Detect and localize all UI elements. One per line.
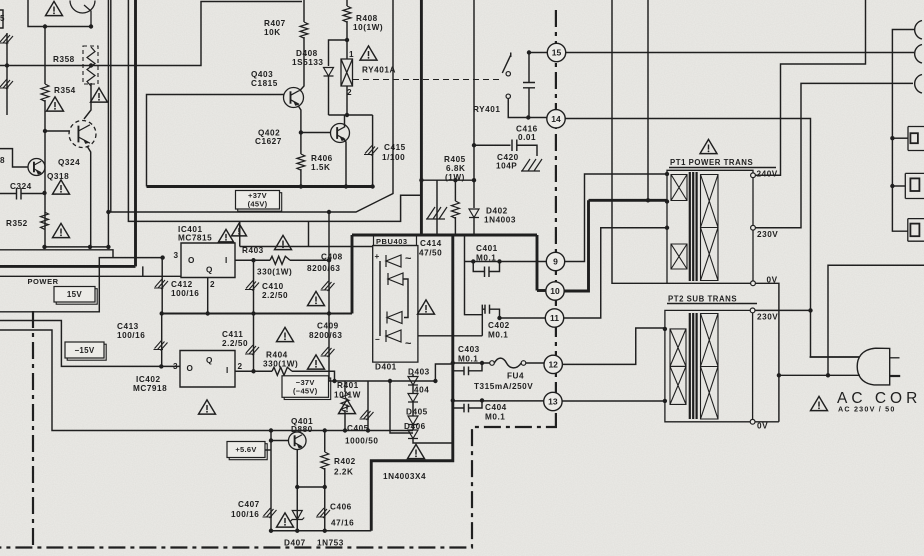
bridge D401 box	[373, 246, 418, 363]
wire IC401 pin2 down	[207, 278, 209, 314]
AC plug prong top	[890, 357, 900, 359]
svg-text:1S5133: 1S5133	[292, 58, 324, 67]
svg-text:C412: C412	[171, 280, 193, 289]
svg-text:R407: R407	[264, 19, 286, 28]
wire bottom common y246.9	[45, 246, 109, 248]
svg-text:13: 13	[548, 397, 558, 407]
svg-text:(1W): (1W)	[445, 173, 465, 182]
PT1 0V tap	[751, 281, 756, 286]
wire y115 node	[329, 114, 373, 116]
svg-text:O: O	[188, 256, 195, 265]
warning triangle below R401	[339, 399, 356, 413]
svg-text:Q324: Q324	[58, 158, 80, 167]
svg-text:Q318: Q318	[47, 172, 69, 181]
svg-text:100/16: 100/16	[171, 289, 199, 298]
wire circle15 right	[566, 52, 914, 54]
wire Q324 base	[45, 130, 70, 132]
PT1 primary winding lower	[671, 244, 687, 269]
wire circle13 left	[453, 400, 544, 402]
wire 0V down	[755, 283, 779, 422]
svg-text:M0.1: M0.1	[488, 331, 508, 340]
svg-text:I: I	[226, 366, 229, 375]
svg-text:R352: R352	[6, 219, 28, 228]
svg-text:47/16: 47/16	[331, 519, 354, 528]
warning triangle right of IC401 label	[219, 229, 234, 242]
wire GND rail y313.5	[162, 313, 352, 315]
svg-text:14: 14	[551, 114, 561, 124]
wire stub module1	[892, 137, 908, 139]
svg-text:(45V): (45V)	[248, 200, 268, 209]
svg-text:D408: D408	[296, 49, 318, 58]
svg-text:15V: 15V	[67, 290, 82, 299]
wire stub module2	[892, 185, 905, 187]
terminal 13	[544, 392, 562, 410]
label box -15V	[67, 344, 106, 360]
svg-text:C404: C404	[485, 403, 507, 412]
wire x45 through Q318 to R352	[44, 100, 46, 247]
warning triangle below Q318	[53, 180, 70, 194]
svg-text:C413: C413	[117, 322, 139, 331]
svg-text:Q: Q	[206, 266, 213, 275]
fuse FU4	[453, 362, 490, 364]
voltage selector module 1	[908, 127, 924, 151]
resistor R352	[41, 212, 49, 229]
svg-text:C414: C414	[420, 239, 442, 248]
svg-text:C1815: C1815	[251, 79, 278, 88]
wire circle11 left	[500, 317, 546, 319]
svg-text:−15V: −15V	[74, 346, 94, 355]
svg-text:~: ~	[405, 338, 412, 350]
wire x648 feeder	[647, 0, 649, 200]
warning triangle below C408	[308, 291, 325, 305]
warning triangle below C409	[308, 355, 325, 369]
svg-text:R406: R406	[311, 154, 333, 163]
PT1 230V tap	[751, 225, 756, 230]
PT1 secondary winding	[701, 175, 719, 228]
wire Q324 emitter down x90.7	[87, 146, 91, 247]
svg-text:PBU403: PBU403	[376, 237, 408, 246]
relay coil RY401A	[341, 59, 353, 86]
wire bridge ac out	[418, 305, 482, 336]
svg-text:1N4003X4: 1N4003X4	[383, 472, 426, 481]
capacitor C402	[482, 305, 499, 318]
capacitor C415	[372, 115, 374, 187]
wire thick box top y235	[352, 234, 537, 237]
transformer PT2 frame	[665, 310, 753, 421]
bridge diode 1	[386, 255, 401, 267]
svg-text:D403: D403	[408, 368, 430, 377]
wire circle11 right	[564, 228, 667, 318]
svg-text:M0.1: M0.1	[485, 413, 505, 422]
wire circle13 right	[562, 400, 665, 402]
capacitor C404	[453, 400, 482, 412]
wire reg outline big loop	[0, 330, 413, 431]
svg-text:R404: R404	[266, 351, 288, 360]
svg-text:D405: D405	[406, 408, 428, 417]
transistor Q318	[28, 159, 45, 176]
svg-text:3: 3	[174, 251, 179, 260]
warning triangle AC	[811, 396, 828, 410]
warning triangle below R354	[47, 97, 64, 111]
wire thick minus bus	[371, 235, 453, 531]
PT1 240V tap	[751, 173, 756, 178]
svg-text:C403: C403	[458, 345, 480, 354]
AC plug body	[857, 348, 890, 385]
wire PT2 230V right	[755, 309, 810, 311]
wire x28 to x45	[28, 0, 91, 27]
IC402 U-box	[180, 351, 235, 388]
chassis boundary corner to bottom	[0, 420, 556, 548]
bridge diode 3	[387, 312, 402, 324]
wire Q402 collector	[344, 115, 346, 127]
wire circle14 right	[565, 119, 859, 358]
wire Q401 base	[271, 440, 289, 442]
warning triangle top-left	[46, 1, 63, 15]
PT2 230V tap	[750, 308, 755, 313]
capacitor C401	[473, 262, 499, 278]
svg-text:12: 12	[548, 360, 558, 370]
svg-text:8: 8	[0, 156, 5, 165]
svg-text:+: +	[375, 252, 380, 261]
svg-text:10K: 10K	[264, 28, 281, 37]
svg-text:FU4: FU4	[507, 372, 524, 381]
transistor Q403	[284, 88, 304, 108]
svg-text:D406: D406	[404, 422, 426, 431]
wire bus x128.4 rail B	[128, 0, 421, 221]
svg-text:O: O	[187, 364, 194, 373]
capacitor C411	[253, 314, 255, 372]
wire thick to PT1 y200.3	[589, 199, 668, 202]
svg-text:M0.1: M0.1	[458, 355, 478, 364]
wire Q403 emitter to Q402 base	[298, 106, 331, 133]
chassis boundary left	[32, 311, 34, 548]
PT1 core bars	[690, 172, 697, 281]
wire thick bus x421.4	[420, 0, 423, 235]
dashed relay control link	[353, 79, 500, 81]
capacitor C409	[328, 314, 330, 382]
wire arc1 to selector bus	[892, 30, 915, 232]
wire rail A +37V y212	[108, 0, 393, 212]
diode D405	[408, 416, 418, 425]
resistor R406	[300, 133, 302, 155]
terminal 15	[547, 43, 565, 61]
svg-text:C402: C402	[488, 321, 510, 330]
wire C401 box left	[465, 235, 483, 315]
svg-text:+5.6V: +5.6V	[235, 445, 256, 454]
wire x474 long vertical	[473, 0, 475, 180]
PT1 terminal dots left	[665, 172, 669, 176]
capacitor C410	[253, 260, 255, 313]
label box -37V	[284, 378, 331, 400]
svg-text:R408: R408	[356, 14, 378, 23]
warning triangle left of C409	[277, 327, 294, 341]
chassis boundary vertical	[555, 10, 557, 420]
svg-text:2.2/50: 2.2/50	[262, 291, 288, 300]
svg-text:100/16: 100/16	[117, 331, 145, 340]
resistor R402	[324, 431, 326, 453]
svg-text:15: 15	[552, 48, 562, 58]
PT2 primary winding	[670, 329, 686, 367]
PT2 secondary winding	[701, 314, 719, 367]
wire -37V rail y381	[329, 380, 435, 382]
resistor R401	[344, 381, 346, 392]
wire circle9 right	[565, 174, 667, 262]
terminal 11	[545, 309, 563, 327]
wire thick rail y266.4 to left edge	[0, 265, 136, 268]
svg-text:10: 10	[550, 286, 560, 296]
svg-text:230V: 230V	[757, 230, 778, 239]
wire main rail y65.5	[0, 2, 302, 66]
svg-text:100/16: 100/16	[231, 510, 259, 519]
transformer PT1 frame	[667, 170, 753, 283]
svg-text:PT1 POWER TRANS: PT1 POWER TRANS	[670, 158, 753, 167]
zener Z-b on left stub	[0, 79, 13, 89]
svg-text:1N753: 1N753	[317, 539, 344, 548]
svg-text:0.01: 0.01	[518, 133, 536, 142]
svg-text:R354: R354	[54, 86, 76, 95]
wire thick rail y186.5	[147, 185, 374, 188]
resistor R404	[272, 367, 292, 375]
warning triangle below R352	[53, 223, 70, 237]
diode D406	[408, 430, 418, 439]
wire x437 leg	[436, 180, 438, 235]
transistor Q324	[69, 121, 96, 148]
svg-text:10(1W: 10(1W	[334, 391, 361, 400]
wire left stub x7	[6, 33, 8, 115]
capacitor C416	[523, 53, 535, 118]
wire Q403 base	[147, 95, 284, 187]
wire upper 15V feed	[0, 250, 113, 258]
capacitor C403	[453, 363, 482, 375]
wire 230V up and over	[755, 83, 913, 227]
svg-text:404: 404	[414, 386, 429, 395]
svg-text:104P: 104P	[496, 162, 517, 171]
warning triangle 1N4003	[408, 444, 425, 458]
zener Z-a on left stub	[0, 34, 13, 44]
wire y276 to IC401 bottom	[0, 266, 181, 276]
wire circle15 left	[529, 52, 547, 54]
wire PT2 0V right	[755, 421, 779, 423]
svg-text:230V: 230V	[757, 313, 778, 322]
wire thick box right x537	[536, 235, 539, 291]
svg-text:T315mA/250V: T315mA/250V	[474, 382, 533, 391]
transistor Q402	[331, 124, 350, 143]
svg-text:MC7918: MC7918	[133, 384, 167, 393]
wire Q402 emitter	[343, 138, 347, 187]
wire circle10 thick right	[564, 200, 588, 291]
svg-text:C415: C415	[384, 143, 406, 152]
svg-text:9: 9	[553, 257, 558, 267]
wire x91 R358 to Q324	[84, 83, 91, 119]
warning triangle left edge of reg box	[232, 223, 247, 236]
capacitor C413	[161, 314, 163, 367]
label box 15V	[56, 289, 97, 305]
svg-text:Q: Q	[206, 356, 213, 365]
resistor R358 dashed select box	[83, 46, 98, 84]
bridge diode 2	[388, 273, 403, 285]
wire Q401 emitter	[296, 450, 298, 531]
capacitor C408	[328, 212, 330, 314]
warning triangle right of bridge	[418, 300, 435, 314]
warning triangle above R403	[275, 235, 292, 249]
resistor R408	[346, 0, 348, 6]
svg-text:D402: D402	[486, 207, 508, 216]
capacitor C407	[263, 508, 277, 518]
connector arc 3	[915, 75, 922, 94]
wire circle10 thick left	[537, 289, 546, 292]
wire Q318 base from left	[0, 149, 28, 167]
wire relay coil bottom	[346, 86, 348, 115]
voltage selector module 2	[905, 173, 924, 198]
terminal 14	[547, 110, 565, 128]
wire bus x110.8	[110, 0, 112, 212]
wire circle12 right	[562, 328, 665, 364]
resistor R354	[44, 27, 46, 85]
svg-text:0V: 0V	[757, 422, 768, 431]
warning triangle left of D407	[277, 513, 294, 527]
warning triangle above PT1	[700, 139, 717, 153]
chassis ground for C420	[521, 159, 542, 171]
bridge diode 4	[386, 330, 401, 342]
svg-text:C406: C406	[330, 503, 352, 512]
wire PT1 bottom to x612	[612, 0, 667, 283]
wire thick bus x135.5	[134, 0, 137, 266]
svg-text:10(1W): 10(1W)	[353, 23, 383, 32]
svg-text:C407: C407	[238, 500, 260, 509]
svg-text:(−45V): (−45V)	[293, 387, 318, 396]
capacitor C420	[474, 140, 537, 157]
wire thick box left x352	[351, 235, 354, 314]
svg-text:−: −	[375, 335, 380, 344]
resistor R407	[303, 0, 305, 22]
warning triangle below IC402	[199, 400, 216, 414]
connector arc 2	[915, 45, 922, 64]
IC401 U-box	[181, 243, 235, 278]
svg-text:~: ~	[405, 253, 412, 265]
svg-text:C408: C408	[321, 253, 343, 262]
bridge inner wires	[380, 261, 408, 336]
svg-text:C405: C405	[347, 424, 369, 433]
svg-text:C410: C410	[262, 282, 284, 291]
svg-text:I: I	[225, 256, 228, 265]
wire AC plug top	[810, 356, 860, 358]
terminal 9	[546, 252, 564, 270]
svg-text:C411: C411	[222, 330, 243, 339]
transistor Q401	[288, 432, 306, 450]
wire IC401 out to R403	[235, 259, 270, 261]
svg-text:5: 5	[0, 14, 5, 23]
wire circle9 left	[465, 261, 547, 263]
label box +5.6V	[229, 444, 267, 460]
wire diode-string left leg	[390, 381, 413, 433]
svg-text:R401: R401	[337, 381, 359, 390]
reg box edge branch x239.75	[240, 221, 373, 246]
wire -15V feed	[0, 321, 180, 367]
svg-text:AC 230V / 50: AC 230V / 50	[838, 405, 896, 414]
svg-text:2.2K: 2.2K	[334, 468, 354, 477]
svg-text:C401: C401	[476, 244, 498, 253]
wire +5.6V stub	[265, 449, 271, 451]
connector arc 1	[915, 21, 922, 40]
svg-text:R405: R405	[444, 155, 466, 164]
capacitor C405	[367, 381, 369, 431]
svg-text:IC402: IC402	[136, 375, 161, 384]
wire AC plug bottom	[779, 374, 860, 376]
svg-text:1N4003: 1N4003	[484, 216, 516, 225]
svg-text:240V: 240V	[757, 170, 778, 179]
wire x271 branch	[270, 431, 272, 531]
svg-text:8200/63: 8200/63	[309, 331, 342, 340]
capacitor C406	[316, 508, 330, 518]
warning triangle above RY401A	[360, 46, 377, 60]
voltage selector module 3	[908, 219, 924, 242]
diode D408 branch	[329, 40, 348, 66]
terminal 10	[546, 282, 564, 300]
svg-text:2: 2	[210, 280, 215, 289]
resistor R403	[270, 256, 290, 264]
svg-text:PT2 SUB TRANS: PT2 SUB TRANS	[668, 295, 737, 304]
svg-text:R403: R403	[242, 246, 264, 255]
label box PBU403	[374, 236, 417, 246]
wire tap y180.2	[421, 179, 474, 181]
AC plug prong bottom	[890, 375, 900, 377]
svg-text:POWER: POWER	[28, 277, 59, 286]
resistor R405	[454, 180, 456, 201]
switch RY401	[502, 53, 510, 74]
svg-text:2: 2	[238, 362, 243, 371]
wire circle14 left	[528, 117, 547, 119]
svg-text:C1627: C1627	[255, 137, 282, 146]
svg-text:RY401A: RY401A	[362, 66, 396, 75]
ground slant on x437	[426, 207, 447, 219]
svg-text:6.8K: 6.8K	[446, 164, 466, 173]
svg-text:2.2/50: 2.2/50	[222, 339, 248, 348]
resistor R358	[87, 47, 95, 86]
zener D407	[290, 511, 304, 522]
svg-text:R358: R358	[53, 55, 75, 64]
warning triangle right of R358	[91, 88, 108, 102]
svg-text:C409: C409	[317, 322, 339, 331]
svg-text:D880: D880	[291, 425, 313, 434]
diode D403	[408, 377, 418, 386]
wire string to fuse net	[435, 364, 452, 381]
label box +37V	[238, 193, 282, 212]
svg-text:1/100: 1/100	[382, 153, 405, 162]
PT2 0V tap	[750, 419, 755, 424]
transistor Q-top partial at top edge	[70, 1, 95, 27]
svg-text:1.5K: 1.5K	[311, 163, 331, 172]
svg-text:330(1W): 330(1W)	[263, 359, 298, 368]
svg-text:8200/63: 8200/63	[307, 264, 340, 273]
svg-text:11: 11	[550, 313, 559, 323]
diode D404	[408, 394, 418, 403]
svg-text:R402: R402	[334, 457, 356, 466]
svg-text:RY401: RY401	[473, 105, 500, 114]
svg-text:D401: D401	[375, 363, 397, 372]
node stub box at left edge	[0, 10, 3, 28]
wire bus x108.4	[107, 0, 109, 247]
wire bottom rail y530.75	[271, 530, 371, 532]
svg-text:2: 2	[347, 88, 352, 97]
svg-text:47/50: 47/50	[419, 249, 442, 258]
svg-text:MC7815: MC7815	[178, 234, 212, 243]
resistor R404 wire	[235, 370, 272, 372]
wire AC line right loop	[828, 265, 924, 375]
svg-text:D407: D407	[284, 539, 306, 548]
PT2 core bars	[690, 313, 697, 419]
wire 240V up and over	[755, 0, 865, 175]
svg-text:Q403: Q403	[251, 70, 273, 79]
